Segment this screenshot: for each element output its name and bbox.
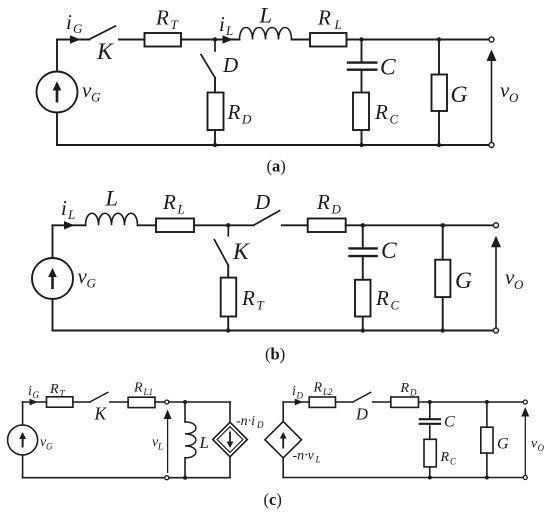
svg-text:R: R: [155, 6, 169, 30]
source vG arrow: [19, 432, 26, 448]
svg-text:L: L: [334, 17, 342, 32]
resistor RL: [310, 33, 347, 47]
wire: [486, 402, 488, 427]
wire: [227, 265, 229, 277]
bottom wire: [283, 477, 523, 479]
terminal: [523, 400, 527, 404]
wire: [282, 224, 308, 226]
capacitor C plate: [350, 247, 377, 249]
svg-text:L: L: [259, 3, 273, 28]
wire: [438, 40, 440, 75]
dependent source arrow down: [227, 432, 234, 449]
wire: [282, 458, 284, 478]
capacitor C plate: [350, 255, 377, 257]
node: [485, 400, 489, 404]
svg-text:L: L: [199, 433, 209, 452]
terminal: [523, 476, 527, 480]
svg-text:R: R: [49, 382, 59, 397]
node: [428, 476, 432, 480]
svg-text:C: C: [390, 112, 399, 127]
node: [441, 223, 445, 227]
node: [213, 37, 217, 41]
wire: [438, 111, 440, 145]
wire: [419, 401, 524, 403]
svg-text:G: G: [455, 268, 472, 294]
svg-text:i: i: [61, 196, 67, 220]
current arrow iD: [295, 399, 303, 406]
node: [437, 143, 441, 147]
wire: [22, 402, 24, 425]
source vG: [8, 425, 38, 455]
dependent source arrow up: [280, 432, 287, 449]
wire: [283, 401, 309, 403]
node: [213, 143, 217, 147]
wire: [347, 39, 490, 41]
resistor RL: [156, 219, 194, 233]
svg-text:K: K: [232, 239, 250, 265]
terminal: [494, 223, 499, 228]
voltage arrow vO: [495, 246, 497, 328]
svg-text:R: R: [227, 100, 241, 124]
svg-text:G: G: [87, 276, 97, 291]
wire: [215, 39, 240, 41]
switch K blade: [89, 26, 115, 39]
svg-text:R: R: [375, 286, 389, 310]
bottom wire: [23, 477, 165, 479]
svg-text:C: C: [444, 414, 455, 431]
node: [428, 400, 432, 404]
svg-text:C: C: [450, 457, 457, 467]
svg-text:L2: L2: [322, 387, 333, 397]
resistor G box: [432, 75, 448, 112]
resistor RC: [353, 93, 369, 131]
inductor L vertical: [185, 422, 196, 458]
wire: [429, 402, 431, 418]
wire: [362, 317, 364, 331]
svg-text:D: D: [331, 202, 342, 217]
voltage arrow vO head: [521, 407, 529, 417]
bottom wire: [57, 144, 489, 146]
resistor RC: [355, 280, 371, 317]
wire: [229, 402, 231, 422]
svg-text:i: i: [292, 384, 296, 399]
capacitor C plate: [420, 423, 440, 425]
svg-text:K: K: [94, 404, 108, 424]
wire: [429, 467, 431, 478]
resistor RT: [221, 278, 237, 317]
dependent source -n·iD outer diamond: [213, 422, 248, 457]
node: [437, 37, 441, 41]
wire: [362, 257, 364, 279]
svg-text:-n·v: -n·v: [293, 449, 315, 464]
svg-text:G: G: [451, 82, 468, 108]
terminal: [494, 328, 499, 333]
wire: [110, 401, 128, 403]
wire: [442, 297, 444, 330]
resistor G box: [435, 260, 450, 297]
svg-text:(b): (b): [265, 345, 285, 364]
svg-text:i: i: [28, 384, 32, 399]
svg-text:(a): (a): [267, 157, 286, 176]
dependent source -n·vL diamond: [265, 422, 302, 458]
svg-text:i: i: [66, 10, 72, 34]
wire: [155, 401, 165, 403]
wire: [361, 71, 363, 93]
wire: [184, 402, 186, 422]
wire: [119, 39, 145, 41]
svg-text:R: R: [374, 100, 388, 124]
source vG arrow: [48, 268, 57, 289]
dependent source -n·iD inner diamond: [217, 427, 243, 453]
svg-text:D: D: [409, 388, 417, 398]
wire: [194, 224, 254, 226]
node: [226, 328, 230, 332]
terminal: [489, 143, 494, 148]
source vG arrow: [53, 81, 62, 102]
capacitor C plate: [348, 68, 376, 70]
svg-text:C: C: [381, 238, 397, 264]
voltage arrow vO: [491, 60, 493, 143]
svg-text:-n·i: -n·i: [236, 414, 255, 429]
wire: [373, 401, 391, 403]
wire: [169, 401, 230, 403]
node: [361, 328, 365, 332]
wire: [442, 225, 444, 259]
svg-text:T: T: [171, 17, 179, 32]
wire: [23, 401, 47, 403]
svg-text:R: R: [317, 6, 331, 30]
wire: [214, 130, 216, 145]
svg-text:C: C: [391, 298, 400, 313]
svg-text:G: G: [46, 442, 53, 452]
wire: [184, 458, 186, 478]
source vG: [32, 258, 73, 299]
switch K stub: [227, 228, 229, 236]
svg-text:G: G: [33, 390, 40, 400]
current arrow iL: [64, 221, 75, 229]
wire: [336, 401, 354, 403]
switch D stub: [214, 42, 216, 52]
svg-text:D: D: [355, 405, 368, 424]
inductor L: [240, 28, 292, 40]
resistor RD: [308, 219, 346, 233]
wire: [346, 224, 494, 226]
svg-text:O: O: [514, 277, 524, 292]
node: [361, 223, 365, 227]
wire: [429, 425, 431, 439]
svg-text:O: O: [509, 90, 519, 105]
svg-text:D: D: [241, 112, 252, 127]
capacitor C plate: [420, 418, 440, 420]
bottom wire: [53, 330, 494, 332]
svg-text:L: L: [157, 442, 163, 452]
resistor RL1: [128, 397, 155, 407]
wire: [52, 225, 54, 258]
wire: [73, 401, 90, 403]
svg-text:L: L: [105, 186, 119, 211]
svg-text:R: R: [162, 190, 176, 214]
resistor RD: [391, 397, 419, 407]
switch K blade: [90, 392, 108, 402]
svg-text:(c): (c): [264, 490, 282, 509]
source vG: [37, 72, 78, 113]
svg-text:L1: L1: [143, 387, 154, 397]
svg-text:i: i: [219, 12, 225, 36]
svg-text:G: G: [73, 21, 83, 36]
inductor L: [86, 213, 138, 225]
svg-text:D: D: [222, 53, 238, 77]
svg-text:R: R: [400, 381, 410, 396]
node: [485, 476, 489, 480]
svg-text:R: R: [316, 190, 330, 214]
wire: [282, 402, 284, 422]
terminal: [165, 400, 169, 404]
capacitor C plate: [348, 61, 376, 63]
svg-text:L: L: [67, 207, 75, 222]
resistor RC: [424, 439, 436, 467]
switch D blade: [353, 392, 371, 402]
wire: [57, 39, 89, 41]
resistor RD: [208, 93, 224, 131]
wire: [138, 224, 157, 226]
wire: [56, 113, 58, 146]
voltage arrow vL: [167, 418, 169, 473]
wire: [361, 130, 363, 145]
current arrow iL: [223, 35, 234, 43]
node: [359, 143, 363, 147]
resistor RT: [47, 397, 73, 407]
wire: [169, 477, 230, 479]
wire: [52, 299, 54, 331]
resistor G box: [481, 427, 493, 453]
switch D blade: [254, 211, 280, 226]
svg-text:G: G: [91, 90, 101, 105]
svg-text:R: R: [133, 381, 143, 396]
svg-text:R: R: [313, 381, 323, 396]
node: [226, 223, 230, 227]
wire: [56, 40, 58, 72]
wire: [292, 39, 311, 41]
current arrow iG: [30, 399, 38, 406]
svg-text:D: D: [256, 420, 264, 430]
voltage arrow vO: [524, 416, 526, 476]
wire: [362, 225, 364, 247]
resistor RT: [145, 33, 182, 47]
wire: [22, 455, 24, 478]
svg-text:L: L: [177, 202, 185, 217]
voltage arrow vL head: [164, 410, 172, 420]
voltage arrow vO head: [487, 50, 497, 62]
svg-text:G: G: [497, 436, 509, 453]
svg-text:L: L: [225, 23, 233, 38]
node: [183, 400, 187, 404]
wire: [361, 40, 363, 62]
wire: [486, 453, 488, 477]
voltage arrow vO head: [491, 236, 501, 248]
svg-text:O: O: [538, 443, 545, 453]
switch D blade: [201, 55, 215, 78]
wire: [53, 224, 86, 226]
node: [359, 37, 363, 41]
terminal: [489, 37, 494, 42]
resistor RL2: [309, 397, 335, 407]
node: [441, 328, 445, 332]
wire: [214, 78, 216, 93]
wire: [229, 457, 231, 478]
svg-text:K: K: [96, 39, 114, 65]
current arrow iG: [70, 35, 81, 43]
terminal: [165, 476, 169, 480]
switch K blade: [214, 240, 228, 266]
svg-text:L: L: [315, 455, 321, 465]
svg-text:D: D: [296, 391, 304, 401]
svg-text:R: R: [440, 450, 450, 465]
wire: [181, 39, 215, 41]
svg-text:D: D: [254, 190, 270, 214]
svg-text:T: T: [257, 298, 265, 313]
svg-text:R: R: [241, 286, 255, 310]
wire: [227, 317, 229, 331]
node: [183, 476, 187, 480]
svg-text:C: C: [380, 55, 396, 81]
